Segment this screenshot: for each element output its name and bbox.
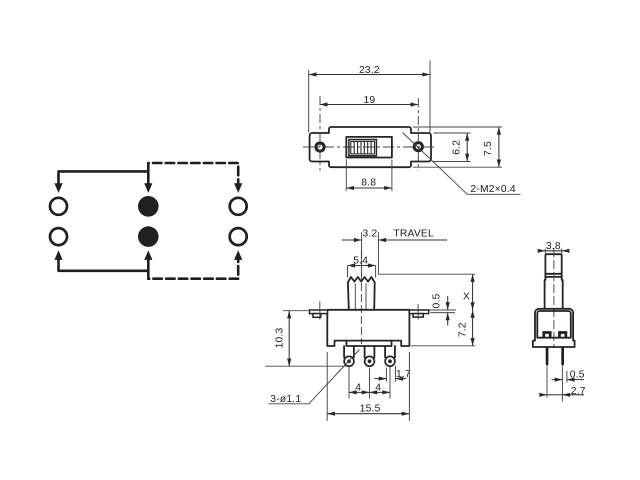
- svg-text:7.5: 7.5: [483, 141, 494, 156]
- top view: right mounting hole M2: [414, 143, 422, 151]
- dimension X (knob height above tabs): [378, 274, 475, 310]
- svg-text:X: X: [463, 292, 470, 303]
- front view: body outline with feet and terminal base: [327, 310, 409, 346]
- svg-text:10.3: 10.3: [275, 328, 286, 349]
- top view: slider knob (knurled): [349, 140, 377, 156]
- side view: body inner wall: [537, 311, 571, 338]
- dimension 7.2 (body height): [411, 310, 475, 346]
- schematic: dashed connection bracket bottom: [148, 250, 242, 279]
- side view: body outer frame: [533, 309, 575, 347]
- svg-text:2-M2×0.4: 2-M2×0.4: [470, 184, 515, 195]
- svg-text:1.7: 1.7: [396, 369, 411, 380]
- top view: horizontal centre line: [303, 146, 437, 148]
- front view: terminal pin 1 (left) with hole: [344, 346, 354, 366]
- svg-text:4: 4: [375, 383, 381, 394]
- front view: left mounting tab: [310, 302, 328, 320]
- front view: terminal pin 2 (centre) with hole: [365, 346, 375, 366]
- front view: knob with serrated top: [348, 277, 375, 310]
- dimension 23.2 (top view overall length): [309, 61, 430, 133]
- schematic: contact circle right top (open): [230, 198, 247, 215]
- svg-text:3.2: 3.2: [363, 228, 378, 239]
- dimension 0.5 (tab thickness, front view): [429, 293, 456, 325]
- side view: right internal contact: [560, 333, 566, 338]
- dimension 5.4 (knob width): [348, 255, 376, 277]
- schematic: contact circle center top (filled): [138, 196, 159, 217]
- top view: slider opening frame: [346, 137, 392, 158]
- schematic: contact circle right bottom (open): [230, 228, 247, 245]
- side view: knob: [545, 254, 563, 309]
- label 2-M2x0.4 with leader to right hole: [403, 133, 521, 195]
- svg-text:23.2: 23.2: [359, 65, 380, 76]
- svg-text:8.8: 8.8: [361, 178, 376, 189]
- dimension 1.7 (pin width): [374, 366, 411, 382]
- dimension 4 / 4 (pin pitch): [349, 367, 390, 399]
- schematic: contact circle left top (open): [50, 198, 67, 215]
- front view: right mounting tab: [409, 304, 428, 320]
- front view: knob centre line: [360, 250, 362, 344]
- svg-text:5.4: 5.4: [353, 255, 368, 266]
- schematic: dashed connection bracket top (center+right poles, alt position): [148, 163, 242, 193]
- svg-text:7.2: 7.2: [458, 322, 469, 337]
- front view: terminal pin 3 (right) with hole: [385, 346, 395, 366]
- svg-text:3-ø1.1: 3-ø1.1: [270, 394, 301, 405]
- top view: frame outline with mounting ears: [310, 127, 431, 167]
- svg-text:6.2: 6.2: [452, 140, 463, 155]
- dimension 10.3 (overall height): [265, 311, 346, 367]
- dimension 2.7 (pin row spacing): [540, 386, 586, 397]
- svg-text:2.7: 2.7: [571, 386, 586, 397]
- svg-text:0.5: 0.5: [570, 369, 585, 380]
- svg-text:15.5: 15.5: [360, 404, 381, 415]
- svg-text:TRAVEL: TRAVEL: [393, 228, 434, 239]
- dimension 19 (top view hole spacing): [320, 95, 418, 106]
- top view: left hole vertical centre line: [319, 96, 321, 171]
- schematic: solid connection bracket bottom: [54, 250, 152, 271]
- label 3-dia1.1 with leader to pin hole: [269, 350, 360, 406]
- dimension 15.5 (body width): [327, 352, 409, 421]
- side view: rear pin: [561, 347, 564, 367]
- schematic: solid connection bracket top (common to left+center poles): [54, 171, 152, 193]
- svg-text:3.8: 3.8: [546, 241, 561, 252]
- dimension 7.5 (body width): [413, 127, 502, 167]
- schematic: contact circle left bottom (open): [50, 228, 67, 245]
- svg-text:4: 4: [355, 383, 361, 394]
- side view: vertical centre line: [553, 248, 555, 348]
- side view: left internal contact: [544, 333, 550, 338]
- dimension 3.2 TRAVEL: [342, 228, 447, 277]
- schematic: contact circle center bottom (filled): [138, 226, 159, 247]
- top view: right hole vertical centre line: [417, 98, 419, 171]
- dimension 8.8 (slider opening width): [346, 160, 392, 192]
- dimension 0.5 (pin thickness, side view): [547, 367, 585, 402]
- svg-text:0.5: 0.5: [431, 293, 442, 308]
- dimension 3.8 (knob thickness): [541, 241, 566, 255]
- top view: left mounting hole M2: [316, 143, 324, 151]
- side view: front pin: [546, 347, 549, 367]
- dimension 6.2 (ear width): [434, 133, 471, 162]
- svg-text:19: 19: [363, 95, 375, 106]
